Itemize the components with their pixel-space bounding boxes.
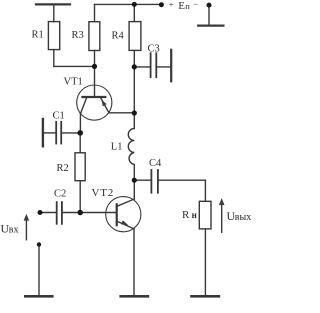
ground bar right	[192, 295, 219, 298]
wire C3 right to terminal bar	[156, 66, 171, 68]
wire VT1 collector down to C1 node	[79, 113, 81, 133]
resistor R3	[89, 22, 100, 51]
arrow Uvyx	[219, 198, 225, 232]
resistor R4	[129, 22, 141, 51]
wire down to Rn	[204, 180, 206, 201]
wire main rail R4node to VT1 emitter node	[133, 67, 135, 113]
svg-text:E: E	[178, 0, 185, 12]
wire C1 left lead	[43, 132, 56, 134]
node C4 L1 VT2 collector	[132, 178, 137, 183]
wire node below R4 to C3	[134, 66, 150, 68]
wire R3 riser to rail	[94, 4, 96, 21]
wire node to R2 top	[79, 133, 81, 153]
svg-text:C4: C4	[149, 158, 162, 169]
svg-text:R: R	[182, 209, 190, 221]
capacitor C2	[57, 202, 62, 224]
svg-text:R1: R1	[32, 30, 44, 41]
svg-text:C2: C2	[54, 188, 66, 199]
node minus terminal	[207, 3, 212, 8]
svg-text:VT2: VT2	[92, 187, 115, 199]
node plus terminal	[159, 2, 164, 7]
node below R4 / C3	[132, 64, 137, 69]
resistor R1	[48, 22, 59, 50]
wire rail to VT2 collector	[133, 180, 135, 199]
node R2 C2 VT2 base	[77, 210, 83, 216]
wire VT2 emitter to ground	[133, 229, 135, 295]
capacitor C4	[151, 170, 158, 193]
ground bar middle	[121, 295, 148, 298]
wire R1 top lead	[53, 4, 55, 21]
terminal bar left of C1	[42, 119, 44, 146]
wire input bottom terminal to ground	[38, 245, 40, 296]
wire R4 bottom lead	[133, 50, 135, 67]
transistor VT1	[77, 85, 112, 120]
wire C1 right lead to node	[61, 132, 80, 134]
node C1 R2 VT1 collector	[77, 130, 83, 136]
ground bar left	[25, 295, 52, 298]
svg-text:−: −	[193, 0, 198, 9]
wire VT1 base lead	[94, 66, 96, 96]
svg-text:VT1: VT1	[64, 76, 83, 87]
node input top terminal	[38, 210, 43, 215]
svg-text:вх: вх	[9, 224, 19, 235]
capacitor C3	[151, 53, 157, 77]
transistor VT2	[106, 197, 141, 232]
wire R4 top lead	[133, 4, 135, 21]
node input bottom terminal	[37, 242, 41, 246]
svg-text:н: н	[192, 210, 197, 220]
terminal bar top-right (minus to common)	[198, 25, 223, 27]
svg-text:R4: R4	[112, 31, 125, 42]
svg-text:L1: L1	[111, 142, 123, 153]
svg-text:п: п	[185, 1, 190, 11]
svg-text:C1: C1	[53, 111, 65, 122]
wire R1 bottom lead down	[53, 50, 55, 67]
resistor Rn	[199, 201, 211, 229]
wire R2 bottom lead	[79, 181, 81, 213]
terminal bar top-left (above R1)	[36, 3, 70, 5]
wire VT2 base lead	[80, 212, 116, 214]
svg-text:+: +	[169, 0, 174, 9]
wire input top terminal to C2	[40, 212, 57, 214]
wire C2 right lead to node	[62, 212, 80, 214]
arrow Uvx	[24, 214, 30, 240]
svg-text:вых: вых	[235, 212, 251, 223]
wire VT1 emitter to rail	[109, 112, 135, 114]
node rail above R4	[132, 2, 137, 7]
svg-text:R2: R2	[57, 163, 69, 174]
wire C4 node to left plate	[134, 179, 151, 181]
terminal bar right of C3	[170, 50, 172, 82]
wire R3 bottom lead	[94, 51, 96, 67]
wire C4 right to load corner	[158, 179, 206, 181]
wire Rn bottom to ground	[204, 229, 206, 295]
wire top supply rail	[95, 3, 162, 5]
inductor L1	[128, 113, 134, 180]
svg-text:R3: R3	[72, 30, 84, 41]
capacitor C1	[56, 122, 61, 144]
wire R1 to base node horizontal	[54, 65, 95, 67]
node VT1 base divider	[92, 64, 97, 69]
resistor R2	[75, 153, 85, 181]
svg-text:C3: C3	[148, 44, 160, 55]
node VT1 emitter rail	[132, 110, 137, 115]
wire minus terminal drop	[208, 5, 210, 26]
